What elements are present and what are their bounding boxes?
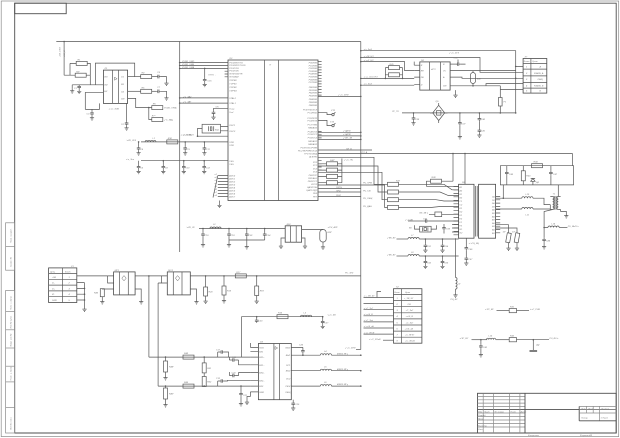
wire: D1 feedback loop over the top: [95, 63, 134, 85]
inductor L3: [301, 313, 312, 317]
wire: Q5 row horizontal: [392, 111, 516, 114]
wire: D1 output 3 elbow down: [128, 98, 152, 107]
net label at bus bottom end: [345, 347, 361, 350]
svg-text:Подп. и дата: Подп. и дата: [10, 366, 13, 380]
svg-text:ХТ3: ХТ3: [329, 122, 335, 124]
svg-text:600*: 600*: [328, 232, 333, 234]
op-amp D1: [103, 68, 127, 103]
svg-text:VSS: VSS: [229, 164, 234, 166]
crystal ZQ1: [409, 225, 437, 232]
svg-text:OSC1: OSC1: [229, 125, 236, 127]
svg-text:[А]: [А]: [536, 344, 540, 347]
svg-text:Vref: Vref: [229, 112, 233, 114]
svg-text:ВХ2+: ВХ2+: [259, 373, 265, 375]
frame: left margin stamp upper box: [6, 223, 15, 270]
svg-text:↙о_ЗА2: ↙о_ЗА2: [183, 95, 192, 98]
wire: D3 upper input row: [149, 356, 251, 358]
svg-text:↙ОП_ЗВ: ↙ОП_ЗВ: [343, 137, 353, 140]
resistor R44* vertical: [163, 356, 174, 380]
resistor R37.3: [388, 198, 459, 202]
wire: D3 out3 to L6: [291, 385, 320, 387]
svg-text:ADC3: ADC3: [228, 183, 236, 186]
svg-text:Конт: Конт: [394, 292, 400, 294]
svg-text:10*: 10*: [512, 232, 515, 234]
capacitor C52: [423, 255, 431, 269]
svg-text:ПРД: ПРД: [336, 191, 341, 193]
svg-text:PB6/WB: PB6/WB: [309, 105, 318, 107]
microcontroller D2: [225, 58, 322, 201]
capacitor C11 with ground: [202, 141, 210, 155]
wire: bus branch 3 to D6: [361, 62, 414, 71]
driver D8 with transformer windings: [454, 153, 501, 239]
svg-text:P1а/ТВ/РWМ/ОСШ: P1а/ТВ/РWМ/ОСШ: [298, 151, 318, 153]
capacitor C6 with ground: [137, 161, 144, 174]
svg-text:ВЫХ: ВЫХ: [286, 347, 291, 349]
wire: VSS rail into D2: [126, 158, 228, 161]
svg-text:КТТ6→: КТТ6→: [209, 74, 216, 76]
svg-text:ADC4: ADC4: [228, 186, 236, 189]
svg-text:↙о_3w3: ↙о_3w3: [364, 83, 373, 86]
inductor L9 vertical: [451, 238, 462, 301]
svg-text:PG1/WDT/TD: PG1/WDT/TD: [229, 62, 243, 64]
resistor R37.4: [388, 205, 459, 209]
svg-text:ПЛ_А: ПЛ_А: [362, 151, 368, 154]
svg-text:↙+С_ЗУЗ: ↙+С_ЗУЗ: [449, 52, 460, 55]
title block (GOST stamp): [478, 393, 617, 433]
svg-text:ИУС0: ИУС0: [311, 184, 318, 186]
svg-text:ХVDD_VМА: ХVDD_VМА: [181, 66, 195, 69]
svg-text:ХТ2: ХТ2: [330, 110, 336, 112]
resistor R43a: [318, 181, 342, 185]
svg-text:+С_ЗОвВ: +С_ЗОвВ: [405, 341, 415, 343]
wire: D6 bottom row: [450, 84, 523, 86]
svg-text:1 Лист: 1 Лист: [601, 418, 609, 420]
svg-text:+С_ЯГЗГ: +С_ЯГЗГ: [405, 335, 415, 337]
inductor L10: [522, 194, 551, 205]
svg-text:Копировал: Копировал: [528, 435, 540, 437]
svg-text:↙+оЗ_НЗ: ↙+оЗ_НЗ: [364, 59, 374, 62]
inductor L6: [320, 382, 361, 387]
capacitor C20: [229, 372, 250, 377]
svg-text:PD4/WB: PD4/WB: [309, 73, 318, 76]
resistor R17 on wire to bus: [235, 272, 360, 278]
svg-text:РЧ_ОБЩ: РЧ_ОБЩ: [363, 198, 372, 200]
ground at end of output2 row: [161, 91, 169, 100]
svg-text:МС2: МС2: [168, 270, 173, 272]
resistor R16: [277, 313, 288, 319]
svg-text:PC6/ОС2: PC6/ОС2: [308, 138, 318, 140]
capacitor C7 (series): [152, 87, 161, 93]
svg-text:ADC5: ADC5: [228, 189, 236, 192]
capacitor C10 with ground: [182, 160, 190, 174]
resistor R1: [70, 60, 90, 76]
svg-text:↘+С_РЧВ: ↘+С_РЧВ: [530, 308, 541, 311]
svg-text:PD5/WB: PD5/WB: [309, 77, 318, 79]
wire: long UART wire to RF section: [318, 148, 573, 154]
wire: D2 to R37 array row 4: [318, 185, 388, 208]
resistor R40: [318, 162, 342, 166]
svg-text:GN: GN: [121, 98, 125, 100]
svg-text:↙+С_ЗОвВ: ↙+С_ЗОвВ: [369, 338, 381, 341]
svg-text:DE: DE: [421, 77, 425, 79]
svg-text:PC4/ОС0: PC4/ОС0: [308, 130, 318, 133]
svg-text:Т0/РВ0: Т0/РВ0: [229, 80, 237, 82]
resistor R31 with net labels: [485, 307, 540, 313]
svg-text:INT1/BAT: INT1/BAT: [229, 75, 239, 78]
svg-text:VC: VC: [443, 70, 446, 72]
svg-text:ОС2: ОС2: [286, 378, 291, 380]
svg-text:↙+С_ЗвГ: ↙+С_ЗвГ: [364, 307, 374, 310]
node: rail drop to D1 input: [63, 42, 65, 76]
net label +C_ACP: [183, 134, 198, 137]
wire: bus branch 5 to D6: [361, 84, 414, 86]
svg-text:Дата: Дата: [520, 412, 528, 414]
resistor R26: [385, 68, 404, 80]
svg-text:Перв. примен.: Перв. примен.: [11, 228, 13, 243]
svg-text:↙+С_МОБ: ↙+С_МОБ: [181, 134, 192, 137]
capacitor C42: [479, 339, 488, 357]
svg-text:PB4/WB: PB4/WB: [309, 98, 318, 101]
ground at end of output1 row: [161, 77, 169, 86]
resistor 10* second: [512, 232, 520, 251]
svg-text:ADC7: ADC7: [228, 195, 236, 198]
svg-text:Цепь: Цепь: [405, 292, 411, 294]
capacitor C55: [440, 255, 448, 269]
wire: X1 rows to collector bus: [77, 283, 87, 312]
D2 left pin name texts: [228, 62, 246, 198]
capacitor C56 on D8 center tap: [465, 238, 480, 251]
svg-text:48002 МГц: 48002 МГц: [337, 352, 349, 355]
capacitor C19: [229, 357, 250, 365]
svg-text:+зว5_вБ: +зว5_вБ: [405, 327, 414, 330]
svg-text:RS485_A: RS485_A: [534, 72, 544, 75]
svg-text:↙+зว5_В: ↙+зว5_В: [364, 313, 374, 316]
svg-text:+5В_Ф: +5В_Ф: [63, 50, 66, 57]
svg-text:↙о_Зик: ↙о_Зик: [126, 158, 135, 161]
wire: left vertical bus: [179, 42, 181, 253]
svg-text:PD7/WB: PD7/WB: [309, 82, 318, 84]
capacitor C15 at KTT6 node: [203, 68, 216, 87]
svg-text:↙+зว5_вБ: ↙+зว5_вБ: [364, 325, 375, 328]
svg-text:РА0/АD0: РА0/АD0: [308, 126, 318, 129]
resistor R37.1: [388, 180, 459, 190]
svg-text:PC5/ОС1: PC5/ОС1: [308, 134, 318, 136]
capacitor C50: [405, 218, 459, 223]
resistor R2*: [64, 71, 90, 77]
svg-text:GND: GND: [52, 300, 57, 302]
svg-text:РЧ_ПРМ: РЧ_ПРМ: [363, 183, 372, 185]
svg-text:РЕ1/АLЕ: РЕ1/АLЕ: [308, 177, 317, 180]
svg-text:ЦАП/РОН: ЦАП/РОН: [307, 186, 317, 189]
svg-text:PG1/VD5: PG1/VD5: [229, 71, 239, 73]
svg-text:ВХ2–: ВХ2–: [259, 380, 265, 382]
svg-text:↙+_ЗВ_3У: ↙+_ЗВ_3У: [364, 295, 376, 298]
svg-text:R40*: R40*: [330, 159, 335, 162]
capacitor C3: [87, 109, 95, 120]
capacitor C41: [477, 121, 485, 137]
resistor R49 on lower row: [183, 381, 194, 388]
resistor 10* first: [503, 232, 512, 251]
svg-text:РЧ_СЫ: РЧ_СЫ: [363, 190, 371, 192]
capacitor C24: [263, 228, 271, 237]
resistor R33 vertical: [521, 166, 531, 185]
svg-text:VDD: VDD: [229, 145, 234, 147]
resistor R51 vertical between rows: [202, 356, 212, 373]
svg-text:ADC1: ADC1: [228, 177, 236, 180]
capacitor C40: [478, 112, 486, 121]
svg-text:↙ВК_ВУ: ↙ВК_ВУ: [387, 253, 396, 256]
svg-text:АLЕ/РD: АLЕ/РD: [308, 156, 317, 159]
svg-text:ВЫ1: ВЫ1: [286, 355, 291, 357]
resistor R34 horizontal: [532, 161, 543, 168]
svg-text:48002 МГц: 48002 МГц: [337, 368, 349, 371]
svg-text:+5В_USB: +5В_USB: [60, 47, 62, 57]
wire: bottom RF row: [460, 337, 488, 340]
capacitor C22: [245, 228, 253, 237]
wire: VD_3V distribution row: [186, 226, 285, 229]
wire: analog row with R16: [241, 317, 322, 357]
svg-text:PC0/ТХD/ХСК: PC0/ТХD/ХСК: [303, 110, 318, 112]
wire: MC2 aux drop to D3 section: [158, 283, 161, 386]
crystal BQ1: [198, 124, 229, 136]
antenna load A: [530, 339, 540, 352]
inductor L8: [408, 252, 459, 256]
svg-text:Взам. инв.№: Взам. инв.№: [10, 333, 13, 347]
connector X1 table: [49, 266, 77, 303]
svg-text:РЕ2/ОС1: РЕ2/ОС1: [308, 181, 318, 183]
svg-text:ТР1/Т1/ОВЩ: ТР1/Т1/ОВЩ: [304, 154, 317, 156]
wire: D1 input node to left pin: [72, 75, 103, 85]
resistor R45 vertical: [94, 289, 104, 304]
varistor RU2: [302, 226, 339, 249]
svg-text:Лит.: Лит.: [580, 408, 587, 410]
svg-text:↙+СЦВ: ↙+СЦВ: [405, 218, 413, 221]
svg-text:↘+С_3В: ↘+С_3В: [327, 313, 336, 316]
svg-text:↙ЗС_ВУ: ↙ЗС_ВУ: [460, 337, 469, 340]
capacitor C26: [291, 344, 304, 355]
svg-text:Утв.: Утв.: [478, 429, 483, 431]
transceiver D6: [414, 60, 450, 90]
resistor R25: [385, 64, 402, 70]
test point X13: [318, 120, 335, 126]
svg-text:↙+С_ЗОВ: ↙+С_ЗОВ: [109, 107, 120, 110]
svg-text:ЗС_Т8: ЗС_Т8: [392, 111, 399, 113]
svg-text:PD1/WB: PD1/WB: [309, 65, 318, 67]
resistor R38: [427, 177, 459, 186]
svg-text:R44*: R44*: [169, 366, 174, 369]
svg-text:EN: EN: [104, 91, 107, 93]
capacitor C14 at OK pin: [211, 107, 228, 120]
inductor L13: [487, 336, 510, 340]
wire: D2 PB out to bus with label: [318, 94, 362, 98]
varistor RU1 600*: [471, 71, 482, 86]
resistor R42: [318, 174, 342, 178]
svg-text:P10/ТОSС/РWМ: P10/ТОSС/РWМ: [301, 148, 318, 150]
wire: X2 row feeds with net labels: [364, 292, 394, 341]
svg-text:VSS: VSS: [229, 161, 234, 163]
ground at D6: [453, 90, 457, 97]
svg-text:↙ВК_ВУ: ↙ВК_ВУ: [387, 236, 396, 239]
wire: L8 row: [387, 253, 408, 256]
svg-text:РА2/АD2: РА2/АD2: [308, 143, 318, 146]
inductor L2: [210, 224, 221, 228]
resistor R32: [509, 336, 558, 342]
wire: D2 to R37 array row 3: [318, 172, 388, 200]
ground under C1: [77, 89, 81, 94]
capacitor C46 below L16: [542, 227, 551, 249]
svg-text:↙+С_ЗУМ: ↙+С_ЗУМ: [345, 347, 356, 350]
svg-text:Изм: Изм: [478, 412, 483, 414]
svg-text:↙ЗС_ВУ: ↙ЗС_ВУ: [485, 308, 494, 311]
svg-text:СИГН: СИГН: [336, 187, 342, 189]
capacitor C21: [239, 385, 248, 406]
resistor R5: [141, 87, 152, 93]
capacitor C16: [201, 228, 209, 247]
resistor R52 vertical between rows: [202, 373, 212, 387]
capacitor C59: [442, 224, 451, 234]
wire: D8 lower outputs to terminators: [496, 225, 517, 233]
svg-text:Справ. №: Справ. №: [10, 256, 13, 267]
wire: vertical feed from long wire to T1: [572, 154, 574, 166]
svg-text:Цепь: Цепь: [533, 61, 539, 63]
wire: D6 VCC to network: [450, 70, 516, 72]
capacitor C51: [423, 238, 431, 252]
svg-text:↘VD_3V3: ↘VD_3V3: [126, 139, 137, 142]
resistor R40* vertical: [163, 385, 174, 407]
wire: X1 row1 to MC1 and onward: [77, 275, 108, 277]
svg-text:Т2/РВ2: Т2/РВ2: [229, 87, 237, 89]
svg-text:+С_ЗвГ: +С_ЗвГ: [406, 322, 415, 324]
optocoupler R62: [279, 224, 307, 249]
capacitor C18: [227, 228, 235, 247]
resistor R39: [420, 212, 459, 217]
svg-text:Т1/РВ1: Т1/РВ1: [229, 84, 237, 86]
svg-text:Конт: Конт: [65, 271, 71, 273]
svg-text:↙ЦАП1: ↙ЦАП1: [343, 130, 351, 133]
node: rail corner into right vertical bus: [360, 42, 362, 350]
svg-text:RE: RE: [421, 70, 425, 72]
svg-text:R2*: R2*: [76, 71, 80, 73]
capacitor C5 (series): [152, 72, 161, 78]
svg-text:ВХ1+: ВХ1+: [259, 357, 265, 359]
svg-text:РЦ_ВУ: РЦ_ВУ: [451, 299, 459, 301]
wire: D2 bottom-right out rows: [318, 187, 361, 197]
fuse F1: [499, 98, 507, 113]
resistor R48 on upper row: [183, 352, 194, 359]
svg-text:ХVDD_VINA: ХVDD_VINA: [163, 107, 177, 110]
svg-text:↙С_ЗАЦ: ↙С_ЗАЦ: [164, 119, 173, 122]
svg-text:ОС1: ОС1: [286, 365, 291, 367]
ground at D3 bottom left: [245, 397, 251, 405]
svg-text:ADC0: ADC0: [228, 174, 236, 177]
wire: bus branch 2: [361, 58, 523, 73]
svg-text:ОВ: ОВ: [408, 304, 412, 306]
svg-text:PC2/INТ2: PC2/INТ2: [307, 118, 317, 120]
svg-text:PB5/WB: PB5/WB: [309, 102, 318, 104]
ground at left end of D1 input wire: [70, 85, 74, 93]
svg-text:PC7/ТМS: PC7/ТМS: [307, 125, 317, 127]
wire: D6 A row to X7: [450, 77, 523, 78]
svg-text:Формат А3: Формат А3: [580, 434, 593, 437]
inductor L1: [145, 138, 156, 142]
svg-text:Инв.№ подл.: Инв.№ подл.: [10, 417, 13, 430]
op-amp D3: [250, 341, 291, 399]
svg-text:PD3/WB: PD3/WB: [309, 71, 318, 73]
svg-text:↙о_3w3: ↙о_3w3: [364, 48, 373, 51]
svg-text:ПЛ_В: ПЛ_В: [346, 148, 352, 150]
inductor L4: [320, 350, 361, 356]
svg-text:PG1/VD3: PG1/VD3: [229, 68, 239, 70]
svg-text:АГЛ: АГЛ: [430, 68, 436, 71]
capacitor C8 with ground: [161, 160, 168, 174]
svg-text:2А: 2А: [491, 202, 495, 205]
resistor R6: [152, 104, 177, 110]
svg-text:↘VD_3V: ↘VD_3V: [186, 226, 195, 229]
wire: T1 secondary to L16: [544, 210, 553, 228]
svg-text:РС_ЗУЗ: РС_ЗУЗ: [345, 272, 354, 274]
svg-text:№ докум.: № докум.: [495, 411, 505, 414]
svg-text:↙+С_Звд: ↙+С_Звд: [364, 319, 374, 322]
svg-text:XTAL2: XTAL2: [228, 97, 236, 100]
capacitor C2: [121, 103, 129, 130]
wire: bus feeds to D2 upper-left pins with net labels: [179, 61, 228, 69]
svg-text:PG1/WD1/TLRD: PG1/WD1/TLRD: [229, 65, 246, 67]
svg-text:Разраб.: Разраб.: [478, 415, 486, 417]
svg-text:PD0/WB: PD0/WB: [309, 63, 318, 65]
wire: D1 output 1 row: [128, 76, 141, 78]
svg-text:РЧ_ДАН: РЧ_ДАН: [363, 205, 372, 208]
svg-text:PC3/INТ3: PC3/INТ3: [307, 121, 317, 123]
capacitor C38: [411, 112, 419, 125]
resistor R20 vertical: [204, 275, 214, 303]
D2 bottom-left ADC pin bundle with labels: [213, 174, 228, 198]
resistor R18 vertical: [255, 276, 265, 304]
capacitor C36: [449, 52, 466, 66]
snubber network box: [500, 166, 573, 199]
wire: bus branch 4 long to D6: [361, 77, 414, 79]
wire: bus branch 1 to X7 row1: [361, 51, 523, 113]
capacitor C37: [458, 112, 466, 139]
svg-text:INT0/VD6/TR: INT0/VD6/TR: [229, 74, 243, 76]
capacitor C57: [464, 250, 473, 265]
svg-text:+зว5_В: +зว5_В: [406, 315, 414, 318]
svg-text:↙о_ЗАТ: ↙о_ЗАТ: [183, 101, 192, 104]
diode D4: [531, 179, 540, 185]
svg-text:VDD: VDD: [229, 142, 234, 144]
wire: D8 pin stubs left column lower: [452, 225, 459, 233]
D2 right pin name texts: [298, 63, 318, 199]
wire: D1 lower-left pin: [85, 91, 103, 93]
wire: bus feeds to D2 mid-left pins: [179, 95, 228, 104]
resistor R4: [141, 72, 152, 79]
wire: MC1 output drop to D3 section: [148, 276, 150, 357]
svg-text:600*: 600*: [477, 79, 482, 81]
test point X12: [318, 110, 336, 116]
svg-text:Т3/РВ3: Т3/РВ3: [229, 91, 237, 93]
svg-text:GN: GN: [443, 86, 447, 88]
svg-text:+_ЗВ_3У: +_ЗВ_3У: [404, 298, 414, 300]
svg-text:Цепь: Цепь: [50, 271, 56, 273]
wire: top power rail +5V: [56, 41, 361, 43]
capacitor C47: [549, 166, 558, 185]
capacitor C43: [505, 166, 514, 185]
wire: D2 PC4..PC6 rows to pull-up network: [318, 132, 361, 139]
svg-text:Лист: Лист: [483, 412, 490, 414]
capacitor C1: [74, 85, 81, 90]
svg-text:↙+о_ЗwЗ_НЗ: ↙+о_ЗwЗ_НЗ: [364, 76, 379, 79]
svg-text:XTAL1: XTAL1: [228, 102, 236, 105]
wire: feed from long wire down to R38: [452, 154, 454, 182]
